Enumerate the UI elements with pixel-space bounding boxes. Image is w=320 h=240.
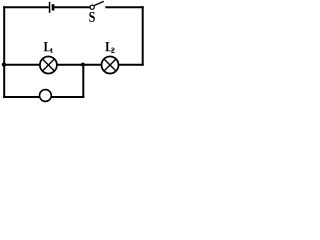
wire: branch vertical connector [82,64,84,98]
wire: right vertical [142,6,144,65]
switch S blade (open) [94,1,104,5]
lamp L2 [102,57,119,74]
label L2 [105,42,112,51]
junction node on left wire [2,63,6,67]
battery cell [49,2,55,13]
wire: left vertical [3,6,5,98]
wire: top right segment [105,6,143,8]
junction node [81,63,85,67]
label S [89,12,95,22]
wire: bottom left segment [3,96,40,98]
wire: middle left segment [3,64,40,66]
label L1 [44,42,51,51]
meter (unlabeled circle component) [40,90,52,102]
wire: middle right segment [118,64,144,66]
wire: top left segment [3,6,49,8]
switch S pivot [90,5,94,9]
wire: middle segment between L1 and L2 [57,64,102,66]
lamp L1 [40,57,57,74]
wire: bottom right segment [51,96,84,98]
wire: top middle segment (battery to switch) [54,6,90,8]
